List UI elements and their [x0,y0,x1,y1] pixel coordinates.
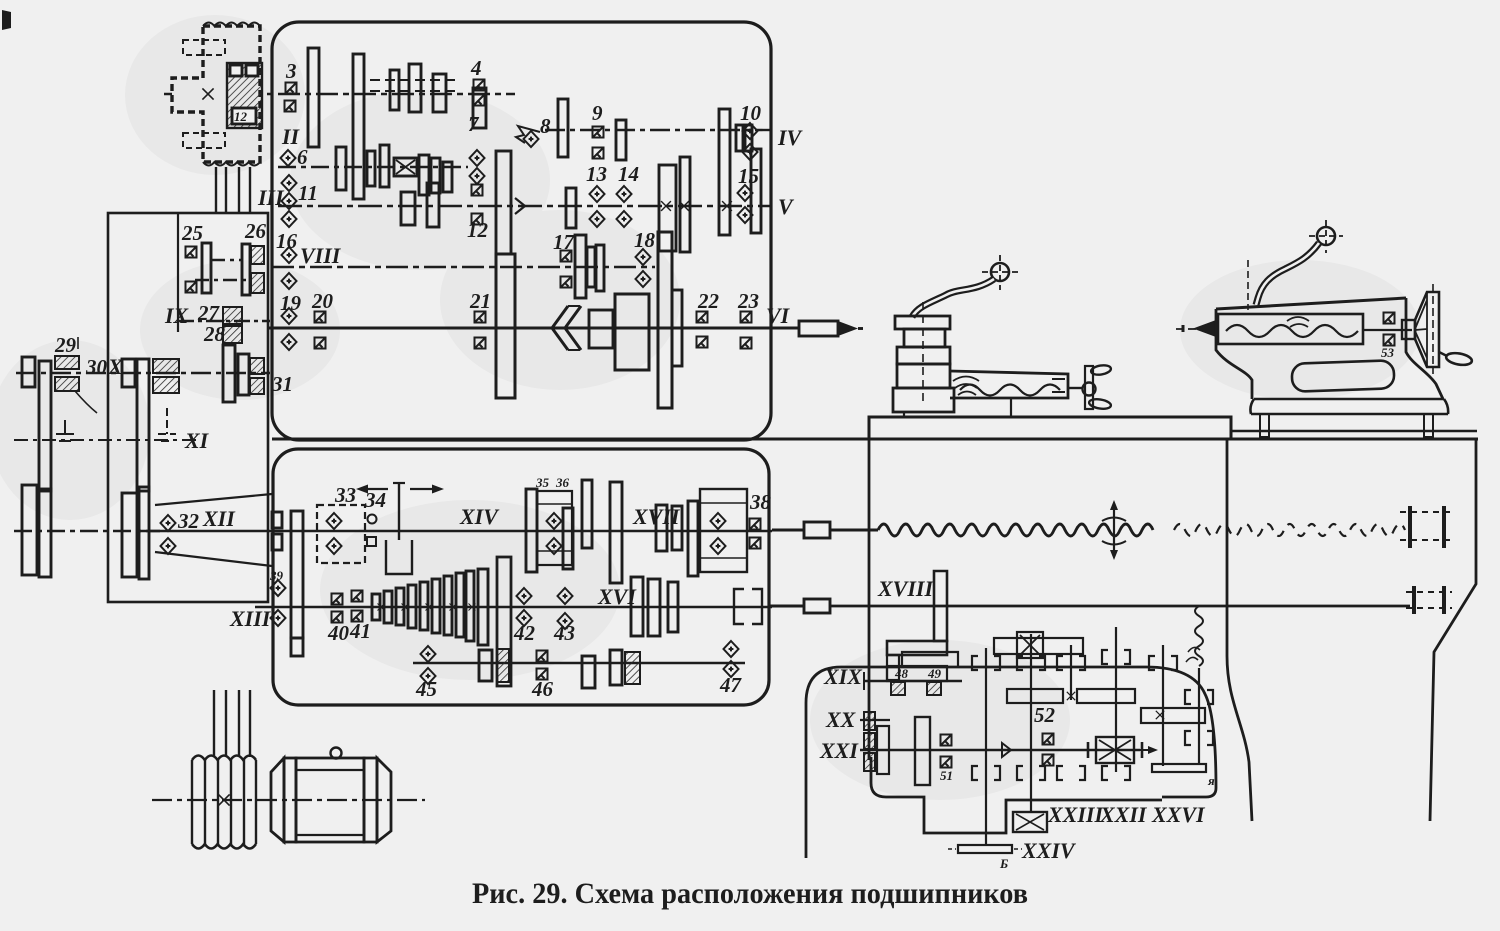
apron bottom step outline [871,757,1162,833]
big spindle gear [496,254,515,398]
dead center point [1193,320,1216,337]
gear IV-a [558,99,568,157]
svg-text:XVIII: XVIII [877,576,934,601]
herringbone bearing VI [552,306,581,350]
bevel gear pairs row1 [972,650,1213,704]
vertical shaft 6 [1198,668,1200,764]
feed gearbox outline [273,449,769,705]
pivot center line [1247,260,1249,310]
motor belt lines [214,690,250,757]
bearing 13 [590,186,605,202]
entry gear XIV [272,512,282,528]
handwheel [1415,292,1439,367]
vertical shaft 5 [1162,645,1164,766]
norton cone gears [372,594,380,620]
bearing 10 [743,123,758,139]
x mark shaft I [202,88,213,99]
cone tip [1002,743,1011,757]
headstock gearbox outline [272,22,771,440]
svg-text:XIV: XIV [459,504,500,529]
shaft II axis [278,166,468,168]
gear I-b tall [353,54,364,199]
svg-text:я: я [1207,773,1215,788]
motor eyebolt [331,748,342,759]
spindle sleeve a [589,310,613,348]
svg-text:3: 3 [285,59,297,83]
svg-text:33: 33 [334,483,356,507]
gear I-d [433,74,446,112]
gear IV-b [616,120,626,160]
base feet [1260,414,1269,437]
svg-text:40: 40 [327,621,350,645]
gear 17-b [587,247,595,287]
tailstock top [1216,298,1406,309]
svg-text:XII: XII [202,506,236,531]
bevel gear pairs row2 [972,731,1213,780]
center mark XI b [158,408,176,441]
svg-text:4: 4 [470,56,482,80]
leadscrew wavy line [878,524,1153,536]
bed right edge with foot [1430,439,1476,821]
svg-text:41: 41 [349,619,371,643]
svg-text:Рис. 29. Схема расположения по: Рис. 29. Схема расположения подшипников [472,877,1028,910]
svg-text:49: 49 [927,666,942,681]
bearing 46 [537,651,548,662]
handwheel knob [1439,352,1447,356]
half-nut engage arrow [1113,508,1115,552]
bearing 45 [421,646,436,662]
bearing 6 [281,150,296,166]
change-gear box partition [177,213,179,332]
bearing 23 [741,312,752,323]
svg-text:17: 17 [553,230,576,254]
gear III-b [427,183,439,227]
crank arm [912,279,994,317]
bearing 41 [352,591,363,602]
bed vertical middle [1227,439,1252,821]
lower pulley far left [22,485,37,575]
cone pulley on shaft I (dashed) [172,26,260,162]
gear low-a [479,650,492,681]
bearing 21 [475,312,486,323]
bearing III [282,175,297,191]
leadscrew wavy dashed continuation [1174,524,1405,536]
bearing 39 [271,580,286,596]
bearing 18 [636,249,651,265]
shifter fork [386,483,412,574]
bearing 32 [161,515,176,531]
leadscrew coupling [804,522,830,538]
svg-text:IX: IX [164,303,190,328]
clutch XXI [1096,737,1134,763]
gear low-c [582,656,595,688]
svg-text:8: 8 [540,114,551,138]
gear V-c tall [719,109,730,235]
shaft XIII-XVI axis [255,606,772,608]
gear 26 [242,244,250,295]
svg-text:VI: VI [766,303,791,328]
shaft XIX [864,680,962,682]
bearing 47 [724,641,739,657]
bracket XVI right [734,589,762,624]
cross feed bar [1141,708,1205,723]
shaft XII axis [140,530,278,532]
spindle VI axis [268,327,800,330]
motor axis [152,799,425,801]
svg-text:V: V [778,194,795,219]
bearing 37 box [700,489,747,572]
svg-text:26: 26 [244,219,267,243]
svg-text:12: 12 [234,109,248,124]
gear XIV-b [563,508,573,569]
gear XVI-b [648,579,660,636]
change-gear box outline [108,213,268,602]
gear low-b [497,649,509,682]
gear I-a [308,48,319,147]
gear 27-28 block [223,307,242,324]
bearing 38 [750,519,761,530]
svg-text:XXVI: XXVI [1151,802,1206,827]
svg-text:30: 30 [85,355,108,379]
gears 48 49 [902,652,958,666]
gear 17-a [575,235,586,298]
svg-text:25: 25 [181,221,203,245]
svg-text:39: 39 [269,568,284,583]
svg-text:9: 9 [592,101,603,125]
cross handle [1085,366,1093,409]
bearing 3 [286,83,297,94]
shaft XX [860,719,890,721]
svg-text:6: 6 [297,145,308,169]
gear low-d [610,650,622,685]
spindle flange [658,232,672,408]
motor pulley [192,756,256,761]
quill screw wave [1226,325,1358,337]
svg-text:16: 16 [276,229,298,253]
svg-text:36: 36 [555,475,570,490]
worm T-bar [994,638,1083,654]
svg-text:13: 13 [586,162,607,186]
svg-text:12: 12 [467,218,489,242]
vertical shaft 2 [1030,634,1032,812]
x marks shaft V [661,201,671,211]
crank arm [1256,243,1319,305]
svg-text:51: 51 [940,768,953,783]
lower pulley axis [14,530,160,532]
XXIV gearbox [1013,812,1047,832]
gear 12 [496,151,511,254]
gear II-a [336,147,346,190]
shaft X axis [16,372,270,374]
svg-text:22: 22 [697,289,720,313]
gear II-f [443,162,452,192]
bearing 42 [517,588,532,604]
coupling IV [736,125,743,151]
pulley X mid left [122,359,135,387]
svg-text:42: 42 [513,621,536,645]
crank ball [991,263,1009,281]
svg-text:11: 11 [298,181,318,205]
gear III-a [401,192,415,225]
pulley inner web [183,40,225,55]
thrust sleeve [1402,320,1415,339]
vertical shaft 4 [1115,627,1117,772]
gear XVII-a [656,505,667,551]
svg-text:32: 32 [177,509,200,533]
slide legs [904,399,1011,417]
shaft IV axis [545,129,770,131]
shaft I axis [164,93,515,95]
gear III-c [566,188,576,228]
svg-text:45: 45 [415,677,437,701]
x mark pulley [218,794,229,805]
gear II-d [419,155,429,195]
bearing 31 block [250,358,264,374]
gear V-a [659,165,676,251]
gear I-e [473,88,486,128]
shaft IX axis [178,320,270,322]
scan tone mottling [0,15,1420,800]
vertical shaft 1 [985,648,987,846]
pulley X far left [22,357,35,387]
bearing 8 arrow [524,131,539,147]
quill barrel [1218,314,1363,344]
lower feed shaft axis [413,662,745,664]
spindle nose [799,321,838,336]
cross handle link [1068,387,1083,389]
leadscrew tail from feed box [772,529,804,532]
shaft I bearing block [227,63,262,128]
bearing 16 [282,247,297,263]
gear XIV-a [526,489,537,572]
svg-text:XIX: XIX [823,664,863,689]
shifter arrows [362,488,438,490]
gear 17-c [596,245,604,291]
bearing 12 [472,185,483,196]
clamp window [1292,360,1395,392]
gear V-b [680,157,690,252]
gear II-c [380,145,389,187]
svg-text:VIII: VIII [300,243,342,268]
gear II-b [367,151,375,186]
svg-text:35: 35 [535,475,550,490]
gear low-e [625,652,640,684]
lower pulley mid [122,493,137,577]
svg-text:23: 23 [737,289,759,313]
feed bracket [934,571,947,641]
bearing 9 [593,127,604,138]
clutch X shaft II [394,158,417,176]
column base [897,364,950,388]
leadscrew end bearing [1410,506,1444,548]
svg-text:52: 52 [1034,703,1056,727]
svg-text:10: 10 [740,101,762,125]
gear XVII-b [672,506,682,550]
svg-text:48: 48 [894,666,909,681]
gear IX-a [223,345,235,402]
bearing 29 block [55,356,79,369]
svg-text:Б: Б [999,856,1008,871]
svg-text:19: 19 [280,291,302,315]
gear XVI-a [631,577,643,636]
svg-text:XXIV: XXIV [1021,838,1077,863]
gear V-d [751,149,761,233]
carriage plate [869,417,1231,439]
svg-text:47: 47 [719,673,743,697]
svg-text:15: 15 [738,164,759,188]
gear 25 [202,243,211,293]
column plate2 [897,347,950,364]
svg-text:34: 34 [364,488,386,512]
column neck [904,329,945,347]
bearing 7 [470,150,485,166]
tailstock body [1216,309,1252,399]
bearing 33 box [317,505,365,563]
big tumbler gear [497,557,511,686]
svg-text:46: 46 [531,677,554,701]
svg-text:XIII: XIII [229,606,272,631]
svg-text:XXIII: XXIII [1047,802,1104,827]
bearing 43 [558,588,573,604]
arm end plate [1052,379,1065,392]
svg-text:29: 29 [54,333,77,357]
left bearing stack [864,712,875,730]
rack squiggle [1195,606,1203,666]
svg-text:53: 53 [1381,345,1395,360]
feed rod shaft XVIII [830,605,1410,608]
bearing 20 [315,312,326,323]
column top plate [895,316,950,329]
gear 52 bars [1007,689,1063,703]
spindle sleeve b [615,294,649,370]
vertical shaft 3 [1070,645,1072,700]
bearing 22 [697,312,708,323]
bearing 4 [474,80,485,91]
belt wedge XII [155,494,272,566]
bearing 14 [617,186,632,202]
svg-text:XXII: XXII [1099,802,1148,827]
svg-text:20: 20 [311,289,334,313]
center axis [1176,328,1216,330]
slide arm [950,371,1068,398]
slide screw wave [960,385,1060,396]
quill nut bearings [1384,313,1395,324]
svg-text:IV: IV [777,125,804,150]
motor body [271,758,284,842]
shaft III-V axis [278,205,770,207]
center mark XI a [56,420,74,441]
apron outline [806,667,1216,858]
column center line [922,302,924,402]
screw arcs [953,377,979,396]
x marks norton [378,604,385,611]
gear XIV-d tall [610,482,622,583]
base plinth [1250,399,1448,414]
svg-text:21: 21 [469,289,491,313]
feed rod end bearing [1414,586,1444,614]
foot plate B [958,845,1012,853]
bearing 35-36 box [537,491,572,565]
svg-text:7: 7 [468,112,480,136]
svg-text:XX: XX [825,707,857,732]
bed top line [272,438,1478,441]
svg-text:14: 14 [618,162,639,186]
gear XXI [915,717,930,785]
bearing 51 [941,735,952,746]
gear II-e [431,158,440,193]
bearing 30 block [153,359,179,373]
bearing 19 [282,308,297,324]
gear I-f [390,70,399,110]
bearing 40 [332,594,343,605]
bed vertical left [868,439,871,760]
scan corner mark [2,10,11,30]
sliding block shaft I [370,80,455,91]
shaft XXI [860,749,1140,751]
svg-text:31: 31 [271,372,293,396]
bearing 52 shaft [1043,734,1054,745]
shaft VIII axis [272,266,655,268]
svg-text:18: 18 [634,228,656,252]
bearing 25 [186,247,197,258]
gear XIII-a tall [291,638,303,656]
bearing 26 [251,246,264,264]
gear XIV-c [582,480,592,548]
gear XVII-c [688,501,698,576]
shaft XIV axis [278,530,772,532]
bearing 15 [738,185,753,201]
tail screw [1363,329,1412,331]
svg-text:43: 43 [553,621,575,645]
right foot plate [1152,764,1206,772]
crank ball [1317,227,1335,245]
svg-text:XXI: XXI [819,738,859,763]
feed rod tail from feed box [769,605,804,608]
chevron joint III [515,198,525,214]
gear XVI-c [668,582,678,632]
belt lines to motor [216,167,250,212]
svg-text:38: 38 [749,490,772,514]
gear IX-b [238,354,249,395]
tall idler gear left [291,511,303,638]
shaft 25-26 [195,260,250,280]
quill arcs [1287,317,1309,327]
feed rod coupling [804,599,830,613]
bearing 17 [561,251,572,262]
axis XI [14,439,200,441]
gear I-c [409,64,421,112]
